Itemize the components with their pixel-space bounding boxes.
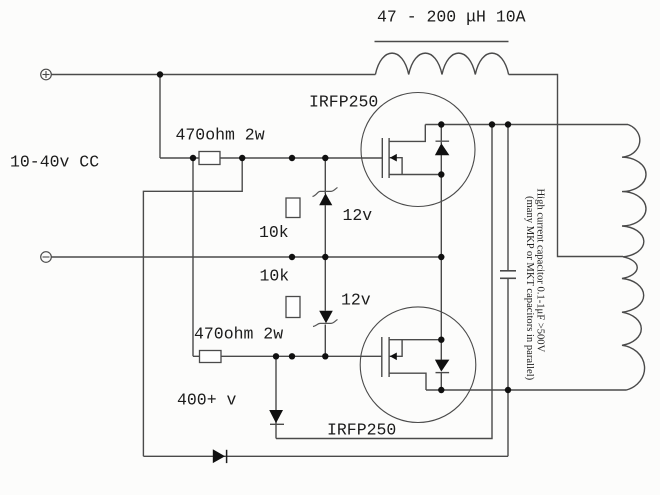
diode D1 triangle	[213, 449, 225, 463]
junction dot	[438, 337, 444, 343]
mosfet Q1 body diode wire	[440, 125, 442, 145]
inductor L1 bar	[375, 41, 509, 43]
wire bottom rail riser to drain line 2	[507, 390, 509, 456]
junction dot	[289, 155, 295, 161]
mosfet Q1 body diode bar	[436, 140, 450, 142]
junction dot	[438, 254, 444, 260]
wire drop x193 to gate line 2	[192, 158, 194, 356]
junction dot	[438, 387, 444, 393]
resistor R4 10k box	[286, 297, 300, 318]
mosfet Q1 channel bar	[388, 138, 390, 178]
junction dot	[505, 387, 511, 393]
wire top rail	[51, 74, 375, 76]
zener Z1 12v wire	[324, 158, 326, 194]
svg-text:400+ v: 400+ v	[177, 391, 237, 410]
svg-text:47 - 200 μH 10A: 47 - 200 μH 10A	[377, 8, 526, 27]
mosfet Q2 arrow	[390, 353, 397, 361]
junction dot	[289, 254, 295, 260]
diode D2 triangle	[269, 410, 283, 423]
junction dot	[489, 121, 495, 127]
mosfet Q1 source stub	[389, 174, 441, 176]
terminal - (negative input)	[41, 252, 52, 263]
junction dot	[322, 155, 328, 161]
wire drain line 2	[426, 389, 627, 391]
wire V+ drop to gate line 1	[159, 75, 161, 159]
mosfet Q2 gate bar	[381, 337, 383, 377]
wire drain line 1	[425, 124, 628, 126]
transformer primary upper winding	[622, 125, 646, 257]
zener Z2 triangle	[319, 311, 333, 324]
junction dot	[289, 353, 295, 359]
mosfet Q2 drain stub	[389, 373, 426, 390]
mosfet Q2 body stub	[389, 340, 402, 357]
inductor L1 47-200uH	[375, 53, 508, 74]
junction dot	[239, 155, 245, 161]
diode D2 wire bar	[270, 423, 284, 425]
junction dot	[322, 353, 328, 359]
capacitor C1 line upper	[507, 125, 509, 271]
svg-text:(many MKP or MKT capacitors in: (many MKP or MKT capacitors in parallel)	[524, 196, 535, 381]
zener Z1 bar	[313, 188, 338, 197]
resistor R1 470ohm 2w box	[199, 152, 220, 165]
mosfet Q1 drain stub	[389, 125, 425, 142]
wire gate diode drop x276	[275, 356, 277, 438]
mosfet Q1 body stub	[389, 158, 402, 175]
junction dot	[505, 121, 511, 127]
mosfet Q2 source stub	[389, 339, 441, 341]
wire gate line 1	[160, 157, 382, 159]
wire bottom rail	[143, 455, 508, 457]
mosfet Q2 channel bar	[388, 337, 390, 377]
wire gate line 2	[193, 355, 382, 357]
zener Z2 12v wire	[324, 257, 326, 311]
diode D1 bar	[226, 450, 228, 463]
junction dot	[273, 353, 279, 359]
svg-text:10k: 10k	[259, 223, 289, 242]
svg-text:470ohm 2w: 470ohm 2w	[176, 126, 265, 145]
junction dot	[157, 71, 163, 77]
wire cross-couple riser x492	[276, 125, 492, 439]
mosfet Q1 body diode triangle	[435, 143, 450, 155]
svg-text:High current capacitor 0.1-1μF: High current capacitor 0.1-1μF >500V	[535, 189, 546, 353]
mosfet Q2 body diode wire	[440, 340, 442, 360]
op circle mosfet Q2	[360, 307, 476, 423]
svg-text:10-40v CC: 10-40v CC	[10, 153, 99, 172]
wire source link x441	[440, 175, 442, 340]
mosfet Q1 arrow	[390, 154, 397, 162]
mosfet Q1 gate bar	[381, 138, 383, 178]
junction dot	[322, 254, 328, 260]
svg-text:12v: 12v	[341, 291, 371, 310]
svg-text:IRFP250: IRFP250	[327, 421, 396, 440]
capacitor C1 plates	[500, 271, 516, 279]
svg-text:IRFP250: IRFP250	[309, 93, 378, 112]
wire feed from inductor to coil center tap	[509, 75, 623, 257]
resistor R3 10k box	[286, 198, 300, 218]
mosfet Q2 body diode triangle	[435, 360, 450, 372]
svg-text:12v: 12v	[343, 206, 373, 225]
wire ground line from negative terminal	[51, 256, 441, 258]
junction dot	[438, 121, 444, 127]
junction dot	[190, 155, 196, 161]
op circle mosfet Q1	[361, 93, 475, 207]
resistor R2 470ohm 2w box	[200, 351, 222, 363]
transformer primary lower winding	[622, 257, 645, 390]
terminal + (positive input)	[41, 69, 52, 80]
zener Z2 bar	[313, 320, 338, 327]
mosfet Q2 body diode bar	[436, 372, 450, 374]
svg-text:10k: 10k	[260, 267, 290, 286]
capacitor C1 line lower	[507, 278, 509, 390]
wire gate1 to bottom rail jog	[143, 158, 242, 456]
junction dot	[438, 171, 444, 177]
zener Z1 triangle	[319, 193, 332, 205]
label capacitor note (vertical)	[524, 189, 546, 381]
svg-text:470ohm 2w: 470ohm 2w	[194, 325, 283, 344]
